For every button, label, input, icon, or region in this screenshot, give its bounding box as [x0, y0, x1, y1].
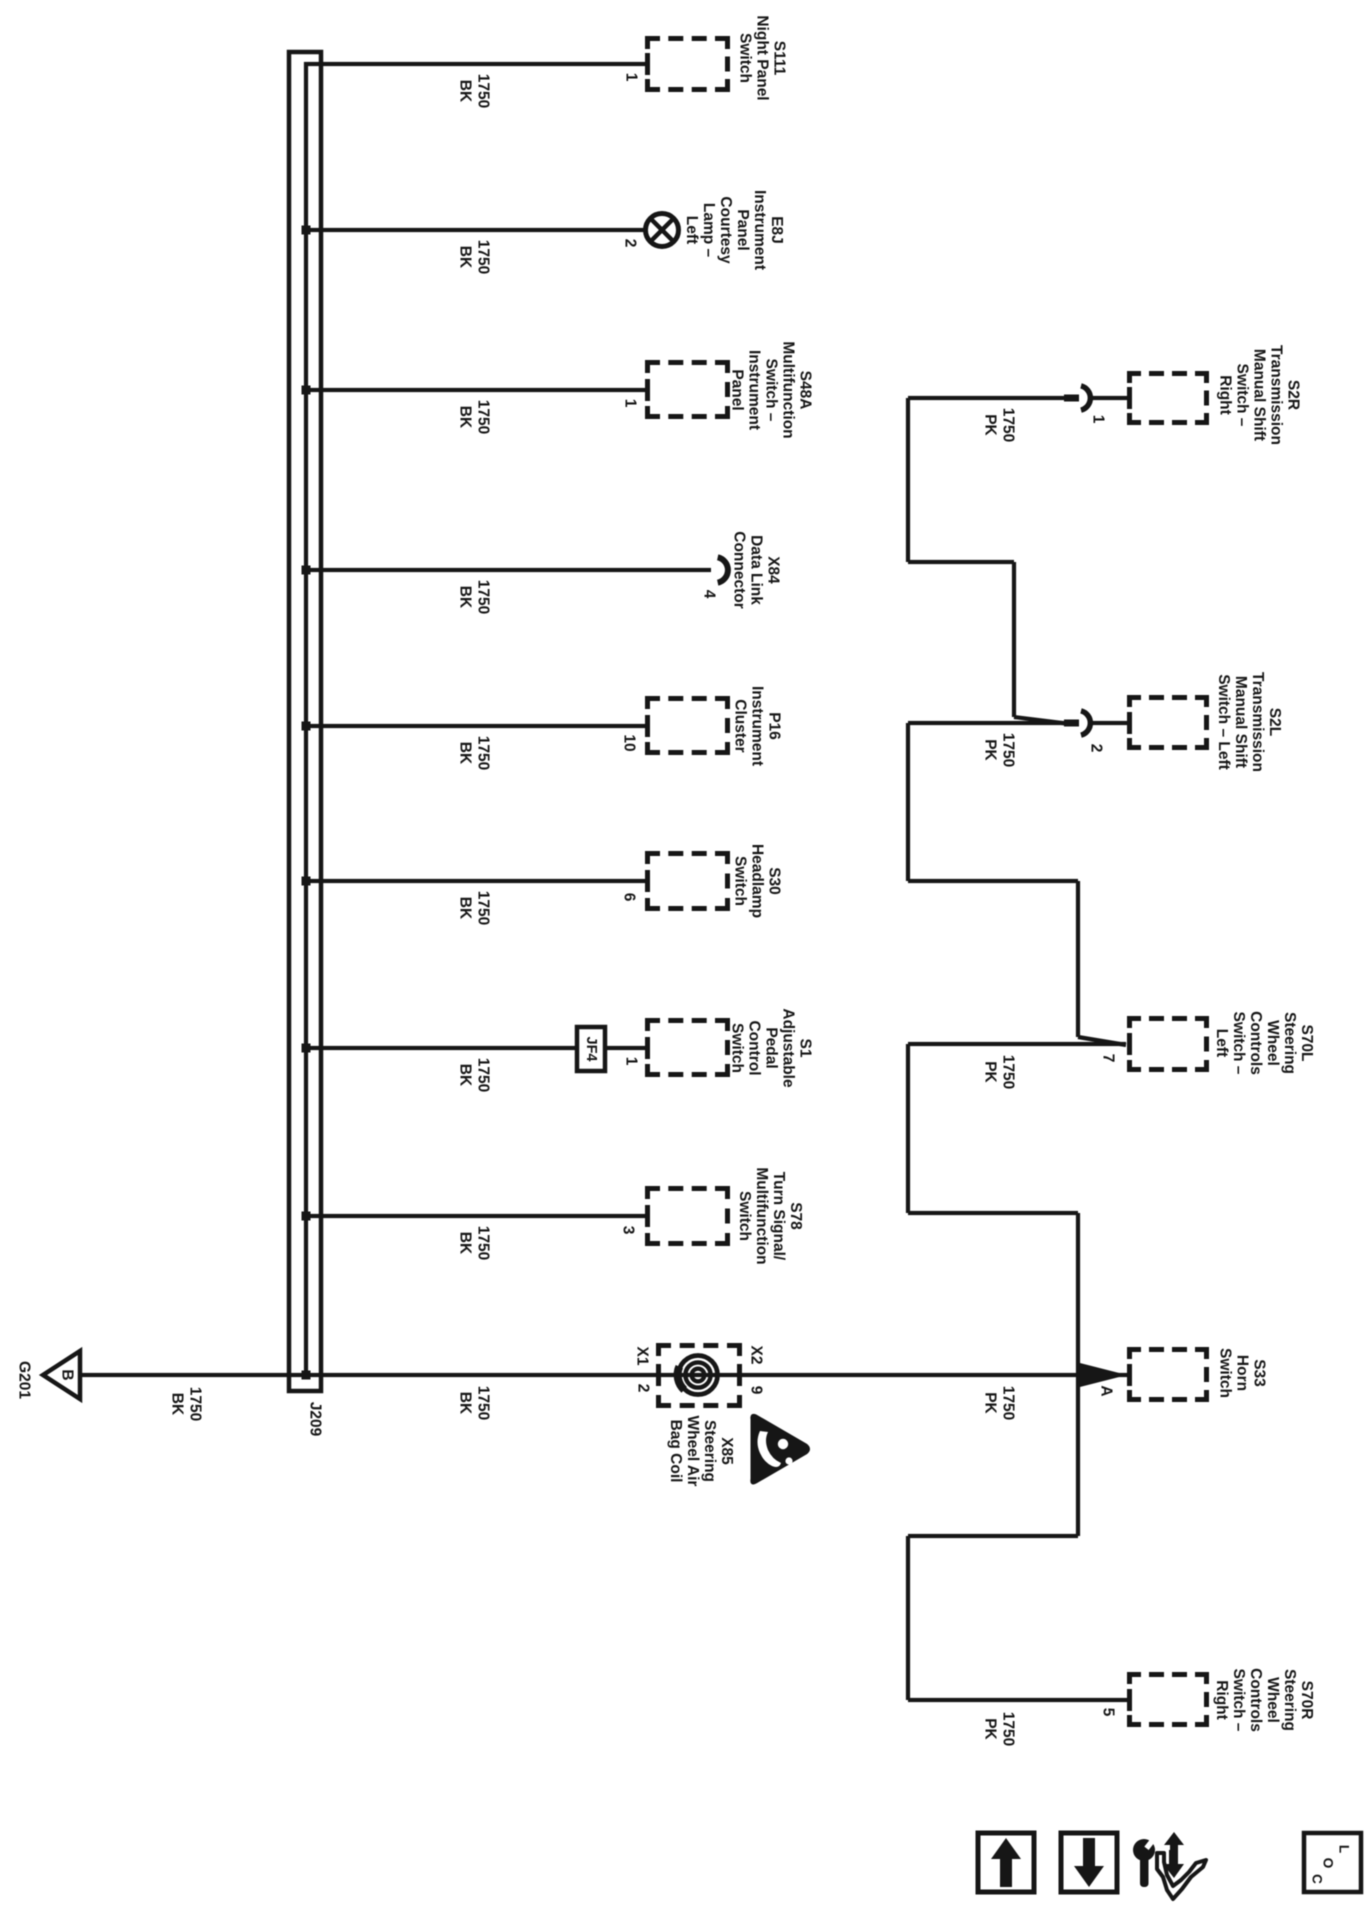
label J209: [307, 1402, 324, 1437]
label S30: [732, 844, 783, 918]
wire S2R pin 1 leftward: [908, 396, 1066, 400]
svg-text:Multifunction: Multifunction: [753, 1167, 770, 1264]
svg-text:1750: 1750: [187, 1387, 204, 1421]
svg-text:1750: 1750: [1000, 1712, 1017, 1746]
label X84: [731, 531, 782, 609]
wire JF4 to S1 pin 1: [605, 1046, 646, 1050]
svg-text:Wheel: Wheel: [1264, 1020, 1281, 1066]
pin 5 (S70R): [1100, 1708, 1117, 1717]
ground G201 symbol: [43, 1351, 80, 1399]
terminal block (S2L): [1064, 720, 1079, 727]
air bag pictogram (white): [778, 1439, 788, 1449]
svg-text:5: 5: [1100, 1708, 1117, 1717]
svg-text:2: 2: [635, 1384, 652, 1393]
wire vertical drop to S2L level: [1012, 562, 1016, 717]
svg-text:Switch: Switch: [736, 1191, 753, 1241]
wire label 1750 BK (ground side): [168, 1387, 203, 1421]
wire label 1750 BK (P16): [456, 736, 491, 770]
label P16: [732, 686, 783, 766]
svg-text:BK: BK: [168, 1393, 185, 1416]
svg-text:Instrument: Instrument: [751, 190, 768, 270]
svg-text:Switch –: Switch –: [1234, 364, 1251, 427]
wire label 1750 BK (middle): [456, 1386, 491, 1420]
svg-text:2: 2: [622, 239, 639, 248]
svg-text:Manual Shift: Manual Shift: [1232, 676, 1249, 768]
label E8J: [683, 190, 785, 270]
junction node on bus for S78: [302, 1212, 311, 1221]
wire label 1750 PK (S2R): [981, 408, 1016, 442]
connector S111 Night Panel Switch (dashed box): [648, 39, 728, 90]
wire bus to P16 pin 10: [306, 724, 646, 728]
icon box up arrow: [978, 1833, 1034, 1892]
wire horizontal step at Y=1536: [908, 1534, 1078, 1538]
wire label 1750 PK (S33): [981, 1386, 1016, 1420]
svg-text:Switch: Switch: [1217, 1348, 1234, 1398]
svg-text:E8J: E8J: [768, 216, 785, 244]
wire horizontal step at Y=881: [908, 879, 1078, 883]
wire slant into S2L terminal: [1014, 717, 1066, 724]
svg-text:Switch –: Switch –: [1230, 1669, 1247, 1732]
wire label 1750 PK (S2L): [981, 733, 1016, 767]
svg-text:G201: G201: [16, 1361, 33, 1399]
pin 9 (X2): [748, 1386, 765, 1395]
junction node on bus for S30: [302, 877, 311, 886]
label S78: [736, 1167, 804, 1264]
svg-text:S111: S111: [771, 41, 788, 76]
wire horizontal step to X=1014: [908, 560, 1014, 564]
svg-text:Right: Right: [1213, 1680, 1230, 1720]
svg-text:1750: 1750: [1000, 1386, 1017, 1420]
icon routing arrow outline: [1157, 1853, 1206, 1899]
connector S2L Transmission Manual Shift Switch Left (dashed box): [1130, 698, 1207, 748]
svg-text:Turn Signal/: Turn Signal/: [770, 1172, 787, 1261]
svg-text:1750: 1750: [475, 580, 492, 614]
svg-text:Panel: Panel: [729, 369, 746, 410]
wire label 1750 BK (X84): [456, 580, 491, 614]
svg-text:S48A: S48A: [797, 371, 814, 410]
connector arc (S2R): [1081, 386, 1090, 410]
svg-text:PK: PK: [981, 414, 998, 436]
pin 1 (S1): [623, 1057, 640, 1066]
label S48A: [729, 341, 814, 438]
pin 1 (S111): [623, 73, 640, 82]
icon wrench: [1133, 1839, 1155, 1861]
svg-text:C: C: [1310, 1874, 1325, 1884]
connector X85 Steering Wheel Air Bag Coil (dashed box): [659, 1346, 740, 1406]
svg-text:3: 3: [620, 1226, 637, 1235]
pin 6 (S30): [621, 893, 638, 902]
svg-text:Steering: Steering: [1281, 1012, 1298, 1074]
svg-text:6: 6: [621, 893, 638, 902]
bus wire (middle line of J209): [304, 62, 308, 1375]
svg-text:S30: S30: [766, 867, 783, 895]
wire S2L pin 2 leftward: [908, 721, 1066, 725]
connector S1 Adjustable Pedal Control Switch (dashed box): [648, 1021, 728, 1075]
pin A (S33): [1098, 1385, 1115, 1396]
svg-text:Steering: Steering: [701, 1420, 718, 1482]
svg-text:BK: BK: [456, 1064, 473, 1087]
wire label 1750 PK (S70R): [981, 1712, 1016, 1746]
coil spiral (air bag clockspring): [679, 1356, 718, 1395]
svg-text:B: B: [59, 1369, 76, 1380]
svg-text:1: 1: [1090, 415, 1107, 424]
wire label 1750 BK (S30): [456, 891, 491, 925]
svg-text:Switch: Switch: [732, 856, 749, 906]
svg-text:JF4: JF4: [583, 1037, 599, 1062]
svg-text:1750: 1750: [475, 736, 492, 770]
svg-text:X2: X2: [748, 1346, 765, 1365]
connector S2R Transmission Manual Shift Switch Right (dashed box): [1130, 374, 1207, 423]
svg-text:S70L: S70L: [1298, 1024, 1315, 1061]
svg-text:1750: 1750: [475, 1226, 492, 1260]
lamp E8J Instrument Panel Courtesy Lamp Left: [646, 214, 679, 247]
junction node on bus for E8J: [302, 226, 311, 235]
junction node on bus for P16: [302, 722, 311, 731]
junction node on bus for horn wire: [302, 1371, 311, 1380]
connector P16 Instrument Cluster (dashed box): [648, 699, 728, 753]
icon LOC box: [1304, 1833, 1361, 1892]
terminal B (ground): [59, 1369, 76, 1380]
svg-text:Multifunction: Multifunction: [780, 341, 797, 438]
svg-text:PK: PK: [981, 1392, 998, 1414]
label S1: [729, 1008, 814, 1088]
wire bus to S30 pin 6: [306, 879, 646, 883]
svg-text:Wheel: Wheel: [1264, 1677, 1281, 1723]
svg-text:Horn: Horn: [1234, 1355, 1251, 1391]
svg-text:S78: S78: [787, 1202, 804, 1230]
svg-text:Switch: Switch: [737, 33, 754, 83]
svg-text:P16: P16: [766, 712, 783, 740]
junction node on bus for X84: [302, 566, 311, 575]
svg-text:1750: 1750: [475, 240, 492, 274]
connector S30 Headlamp Switch (dashed box): [648, 854, 728, 909]
pin 1 (S48A): [622, 399, 639, 408]
pin 3 (S78): [620, 1226, 637, 1235]
pin 4 (X84): [701, 590, 718, 599]
svg-text:O: O: [1321, 1858, 1336, 1869]
svg-text:Controls: Controls: [1247, 1011, 1264, 1075]
icon up-down arrow: [1164, 1832, 1184, 1862]
label S111: [737, 15, 788, 100]
wire S70R pin 5: [908, 1698, 1127, 1702]
svg-text:Transmission: Transmission: [1268, 345, 1285, 445]
svg-text:Switch –: Switch –: [1230, 1012, 1247, 1075]
svg-text:Switch – Left: Switch – Left: [1215, 674, 1232, 770]
svg-text:Wheel Air: Wheel Air: [684, 1416, 701, 1487]
svg-text:4: 4: [701, 590, 718, 599]
wire bus to S111 pin 1: [304, 62, 646, 66]
svg-text:BK: BK: [456, 742, 473, 765]
svg-text:Connector: Connector: [731, 531, 748, 609]
svg-text:PK: PK: [981, 1061, 998, 1083]
svg-text:1750: 1750: [475, 1058, 492, 1092]
wire vertical drop to S70L: [1076, 881, 1080, 1037]
svg-text:Control: Control: [746, 1020, 763, 1075]
svg-text:BK: BK: [456, 406, 473, 429]
pin 2 (S2L): [1088, 744, 1105, 753]
connector X2 label: [748, 1346, 765, 1365]
svg-text:9: 9: [748, 1386, 765, 1395]
svg-text:BK: BK: [456, 897, 473, 920]
connector arc (S2L): [1081, 711, 1090, 735]
wire label 1750 BK (E8J): [456, 240, 491, 274]
svg-text:Left: Left: [683, 216, 700, 244]
wire label 1750 BK (S1): [456, 1058, 491, 1092]
pin 1 (S2R): [1090, 415, 1107, 424]
wire arc to S2L box: [1089, 721, 1127, 725]
svg-text:Steering: Steering: [1281, 1669, 1298, 1731]
svg-text:Switch: Switch: [729, 1023, 746, 1073]
pin 2 (E8J): [622, 239, 639, 248]
wire S70L pin 7 leftward: [908, 1042, 1126, 1046]
svg-text:1: 1: [623, 73, 640, 82]
svg-text:S70R: S70R: [1298, 1681, 1315, 1720]
svg-text:Bag Coil: Bag Coil: [667, 1420, 684, 1483]
horn wire G201 to S33 pin A: [80, 1373, 1127, 1377]
pin 10 (P16): [621, 734, 638, 751]
svg-text:Transmission: Transmission: [1249, 672, 1266, 772]
junction node on bus for S1: [302, 1044, 311, 1053]
connector S70L Steering Wheel Controls Switch Left (dashed box): [1130, 1019, 1207, 1070]
svg-text:X84: X84: [765, 556, 782, 584]
air bag warning triangle: [752, 1415, 809, 1483]
svg-text:Switch –: Switch –: [763, 359, 780, 422]
svg-text:Night Panel: Night Panel: [754, 15, 771, 100]
connector S70R Steering Wheel Controls Switch Right (dashed box): [1130, 1675, 1207, 1725]
wire label 1750 BK (S111): [456, 74, 491, 108]
wire bus to S78 pin 3: [306, 1214, 646, 1218]
svg-text:X1: X1: [634, 1347, 651, 1366]
svg-text:BK: BK: [456, 246, 473, 269]
svg-text:Pedal: Pedal: [763, 1027, 780, 1068]
svg-text:1750: 1750: [475, 891, 492, 925]
svg-text:PK: PK: [981, 739, 998, 761]
splice pack J209 outer shell: [289, 52, 321, 1391]
svg-text:Panel: Panel: [734, 209, 751, 250]
connector S33 Horn Switch (dashed box): [1130, 1350, 1207, 1400]
wire label 1750 PK (S70L): [981, 1055, 1016, 1089]
svg-text:Lamp –: Lamp –: [700, 203, 717, 258]
label S2L: [1215, 672, 1283, 772]
svg-text:2: 2: [1088, 744, 1105, 753]
connector X84 Data Link Connector (arc): [718, 557, 728, 582]
in-line connector JF4: [577, 1027, 605, 1071]
svg-text:Courtesy: Courtesy: [717, 196, 734, 264]
wire bus to JF4 (S1 branch): [306, 1046, 576, 1050]
svg-text:S33: S33: [1251, 1359, 1268, 1387]
wire vertical drop from S2L junction: [906, 723, 910, 881]
svg-text:Instrument: Instrument: [746, 350, 763, 430]
svg-text:Adjustable: Adjustable: [780, 1008, 797, 1088]
icon box down arrow: [1061, 1833, 1117, 1892]
svg-text:Right: Right: [1217, 375, 1234, 415]
wire label 1750 BK (S48A): [456, 400, 491, 434]
svg-text:1750: 1750: [1000, 1055, 1017, 1089]
svg-text:7: 7: [1100, 1054, 1117, 1063]
svg-text:A: A: [1098, 1385, 1115, 1396]
svg-text:1750: 1750: [475, 400, 492, 434]
svg-text:1750: 1750: [1000, 408, 1017, 442]
wire vertical drop from S70L junction: [906, 1044, 910, 1213]
svg-text:Instrument: Instrument: [749, 686, 766, 766]
svg-text:1: 1: [622, 399, 639, 408]
svg-text:S2R: S2R: [1285, 380, 1302, 410]
pin 7 (S70L): [1100, 1054, 1117, 1063]
svg-text:Controls: Controls: [1247, 1668, 1264, 1732]
svg-text:S2L: S2L: [1266, 708, 1283, 736]
svg-text:BK: BK: [456, 1232, 473, 1255]
svg-text:BK: BK: [456, 80, 473, 103]
svg-text:PK: PK: [981, 1718, 998, 1740]
svg-text:1750: 1750: [1000, 733, 1017, 767]
wire horizontal step at Y=1213: [908, 1211, 1078, 1215]
connector S48A Multifunction Switch (dashed box): [648, 363, 728, 417]
svg-text:S1: S1: [797, 1039, 814, 1058]
svg-text:Headlamp: Headlamp: [749, 844, 766, 918]
label S2R: [1217, 345, 1302, 445]
svg-text:Left: Left: [1213, 1029, 1230, 1057]
arrowhead into S33 pin A: [1076, 1362, 1127, 1388]
wire vertical drop from S2R: [906, 398, 910, 562]
terminal block (S2R): [1064, 395, 1079, 402]
svg-text:L: L: [1337, 1845, 1352, 1853]
svg-text:Data Link: Data Link: [748, 535, 765, 605]
label X85: [667, 1416, 735, 1487]
wire vertical drop to S70R: [906, 1536, 910, 1700]
svg-text:Manual Shift: Manual Shift: [1251, 349, 1268, 441]
svg-text:J209: J209: [307, 1402, 324, 1437]
svg-text:BK: BK: [456, 1392, 473, 1415]
svg-text:BK: BK: [456, 586, 473, 609]
svg-text:1750: 1750: [475, 74, 492, 108]
label S70R: [1213, 1668, 1315, 1732]
pin 2 (X1): [635, 1384, 652, 1393]
svg-text:1750: 1750: [475, 1386, 492, 1420]
wire bus to S48A pin 1: [306, 388, 646, 392]
svg-text:1: 1: [623, 1057, 640, 1066]
label G201: [16, 1361, 33, 1399]
label S33: [1217, 1348, 1268, 1398]
svg-text:Cluster: Cluster: [732, 699, 749, 752]
wire label 1750 BK (S78): [456, 1226, 491, 1260]
svg-text:X85: X85: [718, 1437, 735, 1465]
wire bus to E8J pin 2: [306, 228, 646, 232]
wire bus to X84 pin 4: [306, 568, 711, 572]
label S70L: [1213, 1011, 1315, 1075]
wire slant into S70L pin: [1078, 1037, 1126, 1045]
svg-text:10: 10: [621, 734, 638, 751]
connector X1 label: [634, 1347, 651, 1366]
junction node on bus for S48A: [302, 386, 311, 395]
wire vertical through S33 to Y=1536: [1076, 1213, 1080, 1536]
wire arc to S2R box: [1089, 396, 1127, 400]
connector S78 Turn Signal Multifunction Switch (dashed box): [648, 1189, 728, 1244]
